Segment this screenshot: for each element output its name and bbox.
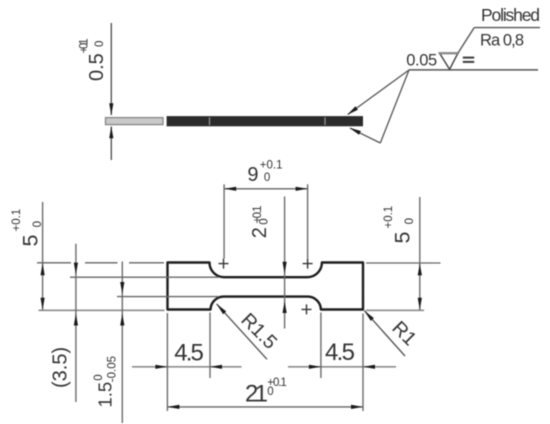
9-dim extension line right xyxy=(307,184,309,258)
arrow 2-dim lower xyxy=(283,301,287,313)
arrow 2-dim upper xyxy=(283,262,287,274)
4.5-left dim line xyxy=(132,366,242,368)
extension line specimen left edge xyxy=(166,313,168,411)
arrow 5-right lower xyxy=(418,298,422,310)
surface symbol triangle top cap xyxy=(439,52,460,54)
9-dim extension line left xyxy=(223,184,225,258)
svg-text:4.5: 4.5 xyxy=(325,339,355,366)
extension line specimen right edge xyxy=(362,314,364,412)
specimen side-view left light bar xyxy=(106,118,164,125)
1.5-dim line xyxy=(121,262,123,424)
surface symbol leader line C xyxy=(350,128,380,143)
surface symbol long leg diagonal xyxy=(458,28,474,53)
arrow R1.5 leader xyxy=(217,304,227,314)
svg-text:R1.5: R1.5 xyxy=(236,309,281,354)
surface symbol triangle xyxy=(440,53,459,69)
extension line 4.5-right inner xyxy=(320,313,322,379)
grip-bottom-right extension xyxy=(366,309,424,311)
arrow 4.5-left at-left xyxy=(155,365,167,369)
arrow surface-leader top xyxy=(347,106,358,115)
tick on dark bar right xyxy=(324,117,326,125)
arrow R1 leader xyxy=(364,311,374,321)
arrow 4.5-right at-left xyxy=(309,365,321,369)
svg-text:1.50-0.05: 1.50-0.05 xyxy=(93,356,119,408)
tick on dark bar left xyxy=(209,117,211,125)
center mark top-left fillet xyxy=(219,259,229,269)
9-dim line xyxy=(224,188,307,190)
gauge-bottom-left extension xyxy=(117,296,219,298)
arrow 0.5-dim lower xyxy=(109,126,113,138)
arrow 5-left lower xyxy=(41,298,45,310)
R1 leader line xyxy=(364,311,405,356)
center mark top-right fillet xyxy=(303,259,313,269)
svg-text:5+0.10: 5+0.10 xyxy=(383,206,416,244)
2-dim line vertical xyxy=(284,197,286,329)
svg-text:0: 0 xyxy=(267,386,273,398)
surface symbol leader line B xyxy=(380,70,409,143)
5-left dim line xyxy=(42,202,44,310)
extension line 4.5-left inner xyxy=(209,313,211,379)
arrow 3.5-dim lower xyxy=(74,314,78,326)
arrow 0.5-dim upper xyxy=(109,103,113,115)
grip-top-left extension segments xyxy=(37,262,164,264)
arrow 9-dim right xyxy=(296,187,308,191)
svg-text:0.5+0.10: 0.5+0.10 xyxy=(79,38,109,81)
arrow 3.5-dim upper xyxy=(74,263,78,275)
svg-text:9: 9 xyxy=(247,164,258,186)
4.5-right dim line xyxy=(288,366,396,368)
svg-text:5+0.10: 5+0.10 xyxy=(11,209,44,247)
dimension 0.5 +0.1/0 line lower xyxy=(110,127,112,161)
arrow 21-dim left xyxy=(167,405,179,409)
lay symbol = upper bar xyxy=(463,57,474,59)
svg-text:+0.1: +0.1 xyxy=(260,159,283,171)
21-dim line xyxy=(167,406,363,408)
grip-bottom-left extension xyxy=(39,309,165,311)
svg-text:Ra 0,8: Ra 0,8 xyxy=(480,32,524,50)
svg-text:(3.5): (3.5) xyxy=(50,347,72,388)
svg-text:R1: R1 xyxy=(387,317,420,350)
grip-top-right extension xyxy=(366,262,441,264)
arrow 1.5-dim upper xyxy=(120,282,124,294)
5-right dim line xyxy=(419,197,421,310)
arrow 4.5-left at-right xyxy=(210,365,222,369)
specimen outline xyxy=(168,263,364,310)
svg-text:2+0.10: 2+0.10 xyxy=(249,206,271,239)
surface symbol base line xyxy=(409,69,538,71)
specimen side-view dark bar xyxy=(167,116,363,126)
arrow 21-dim right xyxy=(351,405,363,409)
svg-text:Polished: Polished xyxy=(481,5,540,25)
arrow 4.5-right at-right xyxy=(363,365,375,369)
gauge-top-left extension xyxy=(70,276,219,278)
svg-text:21: 21 xyxy=(245,380,268,407)
R1.5 leader line xyxy=(217,304,267,359)
3.5-dim line xyxy=(75,244,77,402)
arrow 9-dim left xyxy=(224,187,236,191)
svg-text:0.05: 0.05 xyxy=(406,52,437,70)
surface note top bar xyxy=(474,27,540,29)
arrow surface-leader bottom xyxy=(349,128,361,135)
arrow 5-right upper xyxy=(418,263,422,275)
surface symbol leader line A xyxy=(348,70,409,114)
center mark bottom-right fillet xyxy=(302,304,312,314)
svg-text:4.5: 4.5 xyxy=(174,340,204,367)
arrow 5-left upper xyxy=(41,263,45,275)
lay symbol = lower bar xyxy=(463,61,474,63)
svg-text:0: 0 xyxy=(264,172,270,184)
dimension 0.5 +0.1/0 line upper xyxy=(110,23,112,115)
arrow 1.5-dim lower xyxy=(120,314,124,326)
